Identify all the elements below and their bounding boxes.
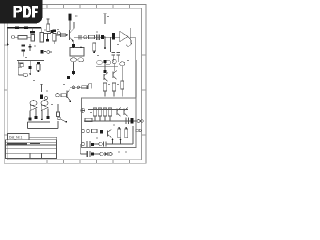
junction node blob 1 on bus [15, 26, 19, 29]
wire: base bus into Q1 [56, 34, 67, 36]
inductor L2 [88, 84, 92, 89]
resistor R10 [121, 66, 124, 97]
op-amp U3 [30, 101, 37, 111]
connector J13 [100, 152, 103, 155]
transistor Q1 [70, 29, 74, 43]
resistor R8 [103, 83, 106, 97]
capacitor C10 [112, 53, 115, 63]
junction dot B [34, 45, 36, 47]
transistor Q8 [67, 90, 71, 103]
connector J15 [72, 86, 75, 89]
wire: module mid bus [84, 120, 137, 122]
resistor R1 [15, 36, 31, 40]
capacitor C13 column x105 [103, 70, 106, 73]
title block tab cell [8, 134, 30, 140]
title block text row smudge [7, 143, 40, 144]
wire: top stub x105 [104, 14, 107, 24]
junction dot D [104, 36, 106, 49]
connector J10 [136, 129, 142, 132]
frame row ticks right [142, 55, 147, 135]
diode D5 [131, 118, 134, 124]
wire: ground bus y128.5 [28, 128, 59, 130]
module box U2 [82, 98, 137, 148]
diode D7 [91, 153, 94, 156]
capacitor C16 [126, 118, 128, 125]
wire: right drop x133 [132, 126, 134, 144]
title block row line 2 [6, 144, 57, 146]
resistor R4 [61, 33, 66, 36]
diode D1 [46, 39, 49, 42]
wire: stub x41.5 [40, 84, 43, 92]
capacitor C4 dark cap on column [51, 30, 54, 33]
capacitor C7 series [97, 34, 99, 39]
wire: row3 link [94, 143, 99, 145]
capacitor C19 [104, 141, 106, 146]
transistor Q2 [104, 73, 108, 82]
capacitor C22 [40, 95, 43, 100]
diode D6 [91, 143, 94, 146]
capacitor C23 [35, 109, 38, 120]
node tick x76 [75, 15, 78, 17]
diode D8 [105, 152, 109, 156]
lamp LP5 [120, 62, 125, 66]
capacitor C21 [29, 61, 32, 75]
lamp LP1 [71, 58, 77, 62]
resistor R5 collector column [69, 14, 75, 30]
connector J1 [11, 36, 14, 39]
resistor R23 [82, 86, 87, 89]
lamp LP8 [23, 73, 28, 76]
op-amp U1 [120, 32, 128, 42]
transistor Q6 [124, 108, 128, 117]
lamp LP9 [57, 117, 61, 120]
frame outer border [4, 5, 146, 164]
junction dot F [41, 111, 43, 121]
resistor R16 [103, 108, 106, 121]
svg-text:Dat_Nr.1: Dat_Nr.1 [9, 135, 22, 139]
capacitor C5 emitter [72, 42, 75, 47]
title block bottom row divider 1 [29, 153, 31, 158]
wire: T junction with stub [44, 34, 51, 40]
title block row line 4 [6, 152, 57, 154]
diode D2 [40, 50, 46, 54]
frame row ticks left [4, 45, 7, 135]
wire: left drop from bus [7, 28, 9, 44]
wire: module top bus [88, 109, 128, 111]
connector J17 [44, 96, 47, 99]
capacitor C6 series [79, 35, 81, 40]
transistor Q3 [113, 64, 117, 80]
frame column ticks bottom [47, 160, 130, 164]
connector J5 [112, 59, 116, 63]
capacitor C2 [53, 30, 57, 45]
capacitor C8 [72, 71, 75, 74]
resistor R9 [112, 83, 115, 97]
connector J8 [81, 129, 84, 132]
title block row line 3 [6, 147, 57, 149]
capacitor C12 column x105 [103, 60, 106, 70]
resistor R22 [37, 62, 40, 72]
capacitor C15 [47, 109, 50, 120]
capacitor C3 [22, 45, 26, 57]
junction dot A [7, 44, 9, 46]
diode D3 [101, 35, 104, 39]
lamp LP4 [105, 61, 111, 65]
resistor R11 [61, 94, 66, 97]
switch S1 bracket [18, 61, 23, 76]
title block row line 1 [6, 141, 57, 143]
connector J12 [99, 142, 102, 145]
wire: stub with bar [29, 44, 32, 51]
wire: thick power bus under badge [7, 27, 41, 29]
relay K1 box [70, 46, 84, 56]
transistor Q7 [108, 130, 112, 138]
title block bottom row divider 2 [41, 153, 43, 158]
resistor R14 [93, 108, 96, 121]
wire: mid signal bus [74, 36, 120, 38]
wire: bottom chain mid [94, 153, 100, 155]
capacitor C9 [67, 76, 70, 79]
resistor R19 [92, 129, 98, 132]
power source V1 [81, 109, 85, 113]
transistor Q5 [117, 108, 121, 117]
connector J9 [87, 129, 90, 132]
lamp LP3 [97, 61, 103, 65]
frame inner border [7, 8, 141, 160]
resistor R15 [98, 108, 101, 121]
resistor R17 [108, 108, 111, 121]
connector J4 [84, 36, 87, 39]
capacitor C17 [100, 130, 103, 133]
wire: drop at x110 [110, 37, 112, 52]
connector J11 [81, 142, 84, 145]
PDF badge [0, 0, 43, 24]
resistor R7 [93, 43, 96, 53]
lamp LP2 [78, 58, 84, 62]
resistor R21 [125, 127, 128, 138]
wire: drop below relay [73, 62, 75, 75]
resistor R3 top column [47, 19, 50, 32]
diode D4 [112, 33, 115, 39]
connector J3 [47, 51, 52, 54]
connector J16 [77, 86, 80, 89]
capacitor C18 [87, 141, 90, 147]
wire: output to right drop [130, 37, 135, 60]
capacitor C20 [87, 151, 90, 157]
frame column ticks top [47, 5, 130, 9]
resistor R18 [85, 118, 92, 121]
capacitor C14 [29, 111, 32, 121]
connector J7 [137, 120, 143, 123]
junction dot C [66, 34, 68, 36]
inductor L1 curl [127, 37, 132, 47]
label text specks [25, 16, 129, 153]
wire: chain y87.3 [70, 86, 88, 88]
resistor R20 [118, 127, 121, 138]
connector J6 [56, 94, 59, 97]
wire: diagonal link [61, 119, 68, 123]
wire: stage bus y122 [28, 122, 51, 129]
resistor R6 [89, 35, 95, 38]
resistor R12 [57, 104, 60, 129]
title block top right line [29, 137, 57, 140]
wire: vertical behind U1 [129, 28, 131, 44]
wire: left-mid bus y60.5 [17, 60, 44, 62]
connector J2 [57, 32, 60, 35]
wire: bottom chain lead [80, 144, 86, 154]
title block tab text [9, 135, 22, 139]
capacitor C11 [117, 53, 120, 63]
page background [0, 0, 149, 198]
connector J14 [109, 153, 112, 156]
op-amp U4 [41, 101, 48, 111]
title block outer box [6, 140, 57, 159]
resistor R2 [40, 28, 44, 42]
wire: module right feed [135, 60, 137, 98]
wire: hline y66 [96, 65, 118, 67]
node tick G [112, 139, 114, 145]
node tick H [120, 139, 122, 145]
wire: row3 to right [106, 143, 133, 145]
capacitor C1 [30, 28, 35, 41]
junction node blob 2 on bus [24, 26, 28, 29]
